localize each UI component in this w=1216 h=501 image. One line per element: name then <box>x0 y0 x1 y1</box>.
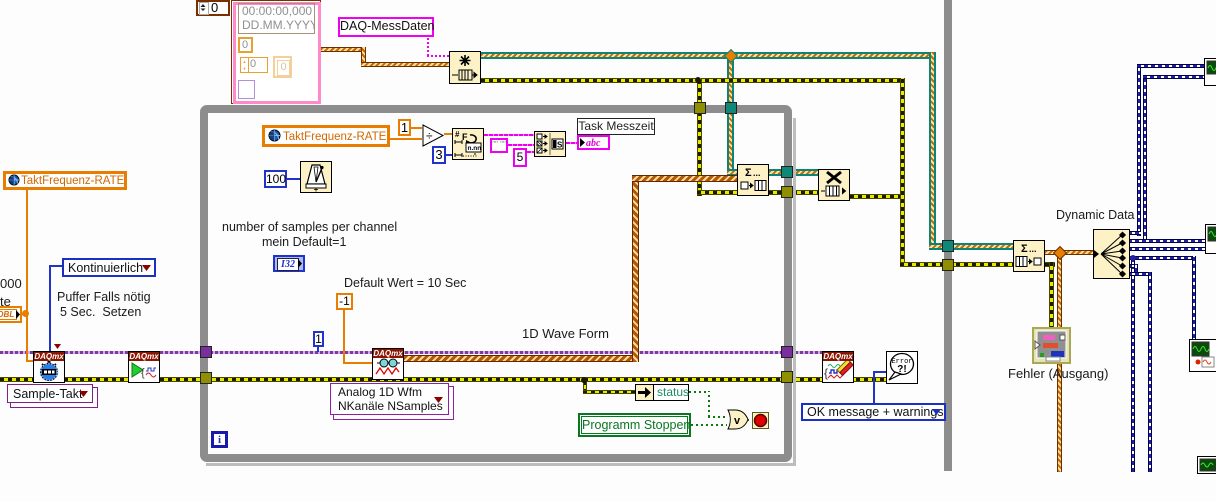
svg-text:S: S <box>557 141 563 150</box>
svg-text:F: F <box>462 132 468 142</box>
svg-text:n.nn: n.nn <box>468 145 482 152</box>
svg-text:v: v <box>734 415 741 427</box>
svg-text:...: ... <box>753 168 761 178</box>
svg-text:Σ: Σ <box>1021 243 1028 255</box>
svg-text:?!: ?! <box>897 364 906 375</box>
svg-text:abc: abc <box>586 138 601 148</box>
svg-text:{: { <box>141 367 145 379</box>
svg-text:#: # <box>455 130 460 139</box>
svg-text:...: ... <box>1029 244 1037 254</box>
svg-text:÷: ÷ <box>426 129 433 143</box>
svg-text:{: { <box>824 366 828 380</box>
svg-text:Σ: Σ <box>745 167 752 179</box>
